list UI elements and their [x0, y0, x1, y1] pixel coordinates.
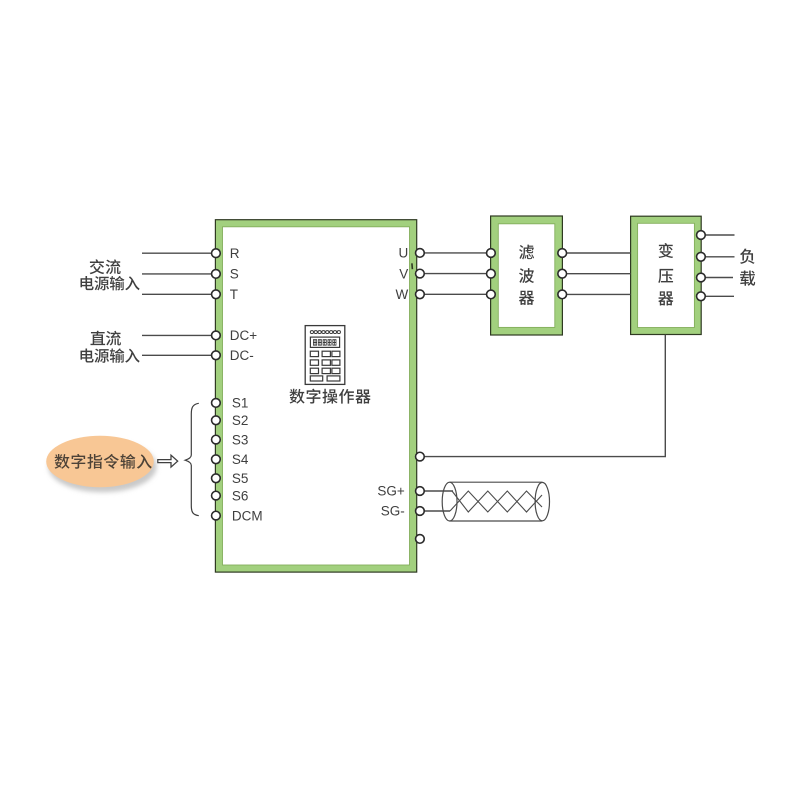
inverter main unit inner area: [223, 227, 410, 565]
svg-text:S4: S4: [232, 452, 249, 467]
terminal V: [416, 269, 425, 278]
terminal filter-out-3: [558, 290, 567, 299]
label power input (DC): [80, 348, 139, 362]
wire load 2: [705, 256, 734, 258]
terminal filter-out-2: [558, 269, 567, 278]
svg-text:U: U: [399, 246, 409, 261]
terminal S1: [212, 399, 221, 408]
wire S input: [142, 273, 212, 275]
wire filter to transformer 2: [567, 273, 631, 275]
callout ellipse digital command input: [46, 436, 154, 487]
svg-text:DCM: DCM: [232, 508, 263, 523]
inverter main unit frame: [215, 220, 416, 572]
callout ellipse shadow: [48, 441, 156, 493]
terminal S6: [212, 491, 221, 500]
shielded cable left end cap: [442, 482, 457, 521]
filter box frame: [491, 216, 563, 335]
svg-text:DC+: DC+: [230, 328, 257, 343]
terminal S3: [212, 435, 221, 444]
svg-text:SG+: SG+: [377, 484, 405, 499]
svg-text:T: T: [230, 287, 238, 302]
brace for S1-DCM group: [185, 403, 199, 515]
wire transformer feedback: [424, 335, 665, 457]
wire load 4: [705, 295, 734, 297]
svg-text:S6: S6: [232, 488, 249, 503]
terminal R: [212, 249, 221, 258]
wire T input: [142, 293, 212, 295]
wire filter to transformer 3: [567, 293, 631, 295]
label DC: [91, 331, 121, 346]
svg-text:V: V: [399, 266, 408, 281]
terminal filter-in-1: [487, 249, 496, 258]
terminal DCM: [212, 511, 221, 520]
terminal spare: [416, 535, 425, 544]
wire W to filter: [424, 293, 486, 295]
shielded cable right end cap: [535, 482, 549, 520]
terminal filter-out-1: [558, 249, 567, 258]
terminal S4: [212, 455, 221, 464]
terminal DC-: [212, 351, 221, 360]
hollow arrow: [158, 455, 178, 467]
terminal S2: [212, 416, 221, 425]
wire SG- lead: [424, 510, 450, 512]
terminal xfmr-out-1: [697, 231, 706, 240]
wire filter to transformer 1: [567, 252, 631, 254]
shielded cable twisted pair: [450, 491, 542, 512]
transformer box frame: [631, 216, 702, 334]
svg-text:S: S: [230, 267, 239, 282]
wire load 1: [705, 234, 734, 236]
transformer box inner area: [638, 223, 695, 327]
label power input (AC): [80, 276, 139, 290]
filter box inner area: [498, 224, 555, 328]
digital operator keypad icon: [305, 326, 345, 385]
terminal SG-: [416, 507, 425, 516]
terminal feedback: [416, 452, 425, 461]
terminal SG+: [416, 487, 425, 496]
terminal U: [416, 249, 425, 258]
terminal S: [212, 270, 221, 279]
label transformer: [658, 243, 673, 306]
shielded cable body: [450, 482, 543, 521]
terminal W: [416, 290, 425, 299]
terminal xfmr-out-4: [697, 292, 706, 301]
terminal filter-in-3: [487, 290, 496, 299]
label AC: [90, 259, 121, 274]
terminal xfmr-out-3: [697, 273, 706, 282]
svg-text:DC-: DC-: [230, 348, 254, 363]
wire V to filter: [424, 273, 486, 275]
wire SG+ lead: [424, 490, 453, 492]
svg-text:S1: S1: [232, 396, 249, 411]
svg-text:S5: S5: [232, 471, 249, 486]
wire U to filter: [424, 252, 486, 254]
label digital command input: [55, 454, 152, 469]
wire DC+ input: [142, 334, 212, 336]
svg-text:R: R: [230, 246, 240, 261]
wire R input: [142, 252, 212, 254]
terminal S5: [212, 474, 221, 483]
svg-text:W: W: [396, 287, 409, 302]
label filter: [519, 245, 534, 305]
svg-text:S2: S2: [232, 413, 249, 428]
terminal xfmr-out-2: [697, 252, 706, 261]
label load: [740, 249, 755, 286]
terminal DC+: [212, 331, 221, 340]
label digital operator: [290, 389, 371, 404]
svg-text:S3: S3: [232, 432, 249, 447]
terminal T: [212, 290, 221, 299]
wire load 3: [705, 277, 733, 279]
wire DC- input: [142, 354, 212, 356]
stray tick mark on band: [411, 263, 414, 269]
svg-text:SG-: SG-: [381, 504, 405, 519]
terminal filter-in-2: [487, 269, 496, 278]
